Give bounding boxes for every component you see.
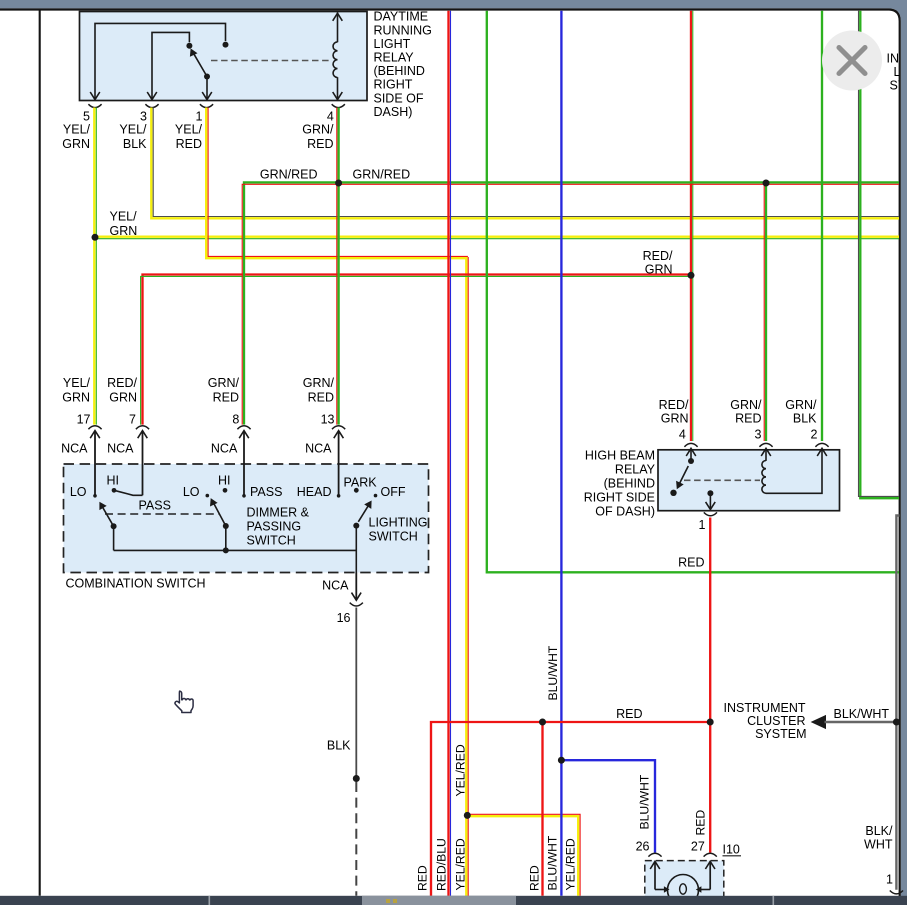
- daytime running light relay box: [80, 12, 368, 101]
- svg-text:RED/: RED/: [659, 398, 689, 412]
- HBR common pin1: [707, 490, 713, 496]
- svg-text:RED: RED: [616, 707, 642, 721]
- svg-text:SYSTEM: SYSTEM: [755, 727, 806, 741]
- wire GRN vertical + horizontal exit: [487, 11, 899, 573]
- node on bottom rail: [223, 547, 229, 553]
- svg-text:GRN: GRN: [62, 137, 90, 151]
- HBR pin4 stub + blade: [690, 450, 692, 462]
- svg-text:RELAY: RELAY: [374, 51, 415, 65]
- svg-text:RED: RED: [678, 556, 704, 570]
- node RED junction mid: [539, 719, 545, 725]
- svg-text:HI: HI: [218, 473, 231, 487]
- I10 dashed box: [645, 861, 724, 903]
- svg-text:5: 5: [83, 109, 90, 123]
- svg-text:GRN: GRN: [109, 391, 137, 405]
- wire YEL/RED branch right and down: [467, 816, 578, 896]
- svg-text:OF DASH): OF DASH): [595, 505, 655, 519]
- HI to pin7 link: [114, 490, 143, 495]
- svg-text:(BEHIND: (BEHIND: [604, 477, 655, 491]
- wire: DRL internal pin3 branch: [152, 32, 189, 99]
- svg-text:27: 27: [691, 839, 705, 853]
- svg-text:LIGHT: LIGHT: [374, 37, 411, 51]
- svg-text:7: 7: [129, 412, 136, 426]
- wire BLU/WHT branch to pin26: [561, 760, 655, 852]
- close (X) button: [822, 31, 882, 91]
- svg-text:YEL/: YEL/: [110, 210, 138, 224]
- svg-text:BLU/WHT: BLU/WHT: [545, 835, 559, 890]
- node BLU/WHT junction: [558, 757, 564, 763]
- svg-text:GRN/: GRN/: [208, 376, 240, 390]
- svg-text:CLUSTER: CLUSTER: [747, 714, 805, 728]
- HBR dashed link: [684, 479, 760, 481]
- svg-text:BLK: BLK: [123, 137, 147, 151]
- wire BLK dashed continuation: [355, 782, 357, 896]
- svg-text:GRN/: GRN/: [730, 398, 762, 412]
- svg-text:(BEHIND: (BEHIND: [374, 64, 425, 78]
- svg-text:RIGHT: RIGHT: [374, 78, 413, 92]
- svg-text:HI: HI: [107, 473, 120, 487]
- DRL switch blade with arrow: [193, 53, 207, 77]
- wire GRN/BLK vertical + horizontal exit right: [860, 11, 899, 498]
- svg-text:RED/: RED/: [643, 249, 673, 263]
- wire YEL/RED pin1 path: [206, 108, 466, 259]
- svg-text:RIGHT SIDE: RIGHT SIDE: [584, 491, 655, 505]
- svg-text:GRN: GRN: [645, 262, 673, 276]
- dimmer switch right: contacts: [206, 494, 210, 498]
- wire RED/GRN vertical to high beam relay pin4: [690, 11, 692, 441]
- node BLK/WHT junction: [893, 719, 899, 725]
- svg-text:INSTRUMENT: INSTRUMENT: [724, 701, 806, 715]
- svg-text:I10: I10: [723, 843, 740, 857]
- svg-text:2: 2: [811, 428, 818, 442]
- wire RED down from junction: [541, 722, 543, 896]
- wire BLK pin16: [355, 608, 357, 779]
- high beam relay box: [658, 450, 840, 511]
- wire BLU/WHT main vertical: [560, 11, 562, 896]
- HBR coil to pin2: [766, 450, 822, 494]
- svg-text:YEL/RED: YEL/RED: [563, 838, 577, 890]
- svg-text:SWITCH: SWITCH: [369, 529, 418, 543]
- DRL dashed actuator link: [211, 60, 330, 62]
- pin 16 exit: [355, 573, 357, 601]
- svg-text:17: 17: [77, 412, 91, 426]
- svg-text:3: 3: [140, 109, 147, 123]
- svg-text:HIGH BEAM: HIGH BEAM: [585, 449, 655, 463]
- svg-text:GRN/RED: GRN/RED: [260, 167, 318, 181]
- node YEL/RED junction: [464, 812, 470, 818]
- lighting switch blade: [358, 505, 369, 522]
- node: DRL contact (from pin5): [223, 42, 229, 48]
- node RED/GRN junction at vertical: [688, 272, 694, 278]
- svg-text:DIMMER &: DIMMER &: [247, 505, 310, 519]
- svg-text:SWITCH: SWITCH: [247, 533, 296, 547]
- dimmer blade 2: [213, 502, 226, 526]
- svg-text:BLK/: BLK/: [865, 824, 893, 838]
- svg-text:1: 1: [699, 518, 706, 532]
- svg-text:BLK/WHT: BLK/WHT: [834, 707, 890, 721]
- DRL relay coil (pin4): [337, 13, 339, 43]
- svg-text:GRN: GRN: [62, 391, 90, 405]
- svg-text:RUNNING: RUNNING: [374, 23, 432, 37]
- svg-text:GRN/: GRN/: [302, 123, 334, 137]
- I10 bulb: [668, 875, 699, 905]
- svg-text:GRN/RED: GRN/RED: [353, 167, 411, 181]
- bottom rail: [114, 549, 357, 551]
- node RED junction at instrument line: [707, 719, 713, 725]
- dimmer switch left: contacts: [93, 494, 97, 498]
- svg-text:BLK: BLK: [327, 739, 351, 753]
- HBR pin connectors: [684, 443, 697, 446]
- wire BLK/WHT right vertical: [896, 516, 899, 890]
- svg-text:4: 4: [327, 109, 334, 123]
- svg-text:COMBINATION SWITCH: COMBINATION SWITCH: [66, 576, 206, 590]
- I10 pin connectors 26 27: [648, 853, 661, 856]
- wire RED horizontal (instrument cluster feed): [431, 722, 710, 896]
- svg-text:RED: RED: [528, 865, 542, 891]
- wire YEL/BLK pin3 vertical+horizontal bus: [151, 108, 899, 219]
- svg-text:4: 4: [679, 428, 686, 442]
- svg-text:RELAY: RELAY: [615, 463, 656, 477]
- svg-text:13: 13: [321, 412, 335, 426]
- hand cursor: [175, 691, 193, 712]
- svg-text:NCA: NCA: [61, 441, 88, 455]
- svg-text:PASS: PASS: [139, 499, 171, 513]
- wire YEL/GRN horizontal bus: [95, 236, 899, 238]
- clipped system label at right page edge: [887, 51, 907, 92]
- DRL pin connector arcs: [88, 104, 101, 107]
- wire GRN/RED pin8 vertical + horizontal bus: [244, 182, 899, 424]
- svg-text:BLU/WHT: BLU/WHT: [546, 645, 560, 700]
- wire GRN pin2 HBR vertical: [821, 11, 823, 441]
- node YEL/GRN junction: [92, 234, 98, 240]
- svg-text:LO: LO: [183, 485, 200, 499]
- wire RED HBR pin1 down: [709, 518, 711, 853]
- svg-text:YEL/: YEL/: [175, 123, 203, 137]
- svg-text:RED/BLU: RED/BLU: [435, 838, 449, 891]
- svg-text:WHT: WHT: [864, 838, 893, 852]
- svg-text:LO: LO: [70, 485, 87, 499]
- svg-text:26: 26: [636, 839, 650, 853]
- page left border line: [39, 10, 41, 896]
- svg-text:RED: RED: [694, 810, 708, 836]
- svg-text:HEAD: HEAD: [297, 485, 332, 499]
- wire GRN/RED down to HBR pin3: [765, 183, 767, 441]
- svg-text:LIGHTING: LIGHTING: [369, 515, 428, 529]
- svg-text:NCA: NCA: [107, 441, 134, 455]
- svg-text:1: 1: [196, 109, 203, 123]
- svg-text:RED/: RED/: [107, 376, 137, 390]
- node GRN/RED junction pin13 line: [335, 180, 341, 186]
- wire: DRL blade to pin1: [206, 77, 208, 100]
- wire BLK/WHT to instrument cluster: [825, 721, 897, 723]
- wire RED/BLU vertical: [447, 11, 449, 896]
- svg-text:RED: RED: [176, 137, 202, 151]
- wire RED/GRN pin7 path: [143, 275, 691, 425]
- combination switch dashed box: [64, 464, 429, 573]
- svg-text:RED: RED: [416, 865, 430, 891]
- wire GRN/RED relay pin4 to switch pin13: [337, 108, 339, 425]
- svg-text:PARK: PARK: [344, 475, 378, 489]
- node: DRL contact (from pin3): [186, 43, 192, 49]
- svg-text:RED: RED: [308, 391, 334, 405]
- svg-text:YEL/RED: YEL/RED: [453, 744, 467, 796]
- svg-text:1: 1: [886, 873, 893, 887]
- svg-text:DAYTIME: DAYTIME: [374, 10, 429, 24]
- dimmer blade 1: [102, 505, 114, 526]
- lighting switch contacts: [337, 494, 341, 498]
- svg-text:DASH): DASH): [374, 105, 413, 119]
- svg-text:GRN/: GRN/: [303, 376, 335, 390]
- svg-text:OFF: OFF: [381, 485, 406, 499]
- svg-text:RED: RED: [307, 137, 333, 151]
- svg-text:GRN: GRN: [110, 224, 138, 238]
- svg-text:NCA: NCA: [305, 441, 332, 455]
- svg-text:SIDE OF: SIDE OF: [374, 91, 424, 105]
- bottom toolbar: [0, 896, 907, 905]
- lighting switch stem to rail and out: [355, 526, 357, 573]
- svg-text:NCA: NCA: [322, 579, 349, 593]
- svg-text:BLK: BLK: [793, 411, 817, 425]
- svg-text:NCA: NCA: [211, 441, 238, 455]
- svg-text:YEL/RED: YEL/RED: [453, 838, 467, 890]
- wire YEL/GRN pin5 to pin17 vertical: [93, 108, 95, 425]
- svg-text:PASSING: PASSING: [247, 519, 302, 533]
- svg-text:PASS: PASS: [250, 485, 282, 499]
- svg-text:8: 8: [232, 412, 239, 426]
- svg-text:16: 16: [337, 611, 351, 625]
- combination switch pin connectors (17,7,8,13): [88, 426, 101, 429]
- svg-text:YEL/: YEL/: [119, 123, 147, 137]
- svg-text:YEL/: YEL/: [63, 123, 91, 137]
- HBR coil pin3: [765, 450, 767, 461]
- svg-text:GRN/: GRN/: [785, 398, 817, 412]
- node GRN/RED junction right: [763, 180, 769, 186]
- svg-text:GRN: GRN: [661, 411, 689, 425]
- svg-text:RED: RED: [735, 411, 761, 425]
- svg-text:BLU/WHT: BLU/WHT: [638, 774, 652, 829]
- svg-text:3: 3: [755, 428, 762, 442]
- node BLK junction: [353, 775, 359, 781]
- wire: DRL internal pin5 branch: [95, 23, 226, 99]
- svg-text:RED: RED: [213, 391, 239, 405]
- svg-text:YEL/: YEL/: [63, 376, 91, 390]
- junction dots (drawn on top): [92, 234, 99, 241]
